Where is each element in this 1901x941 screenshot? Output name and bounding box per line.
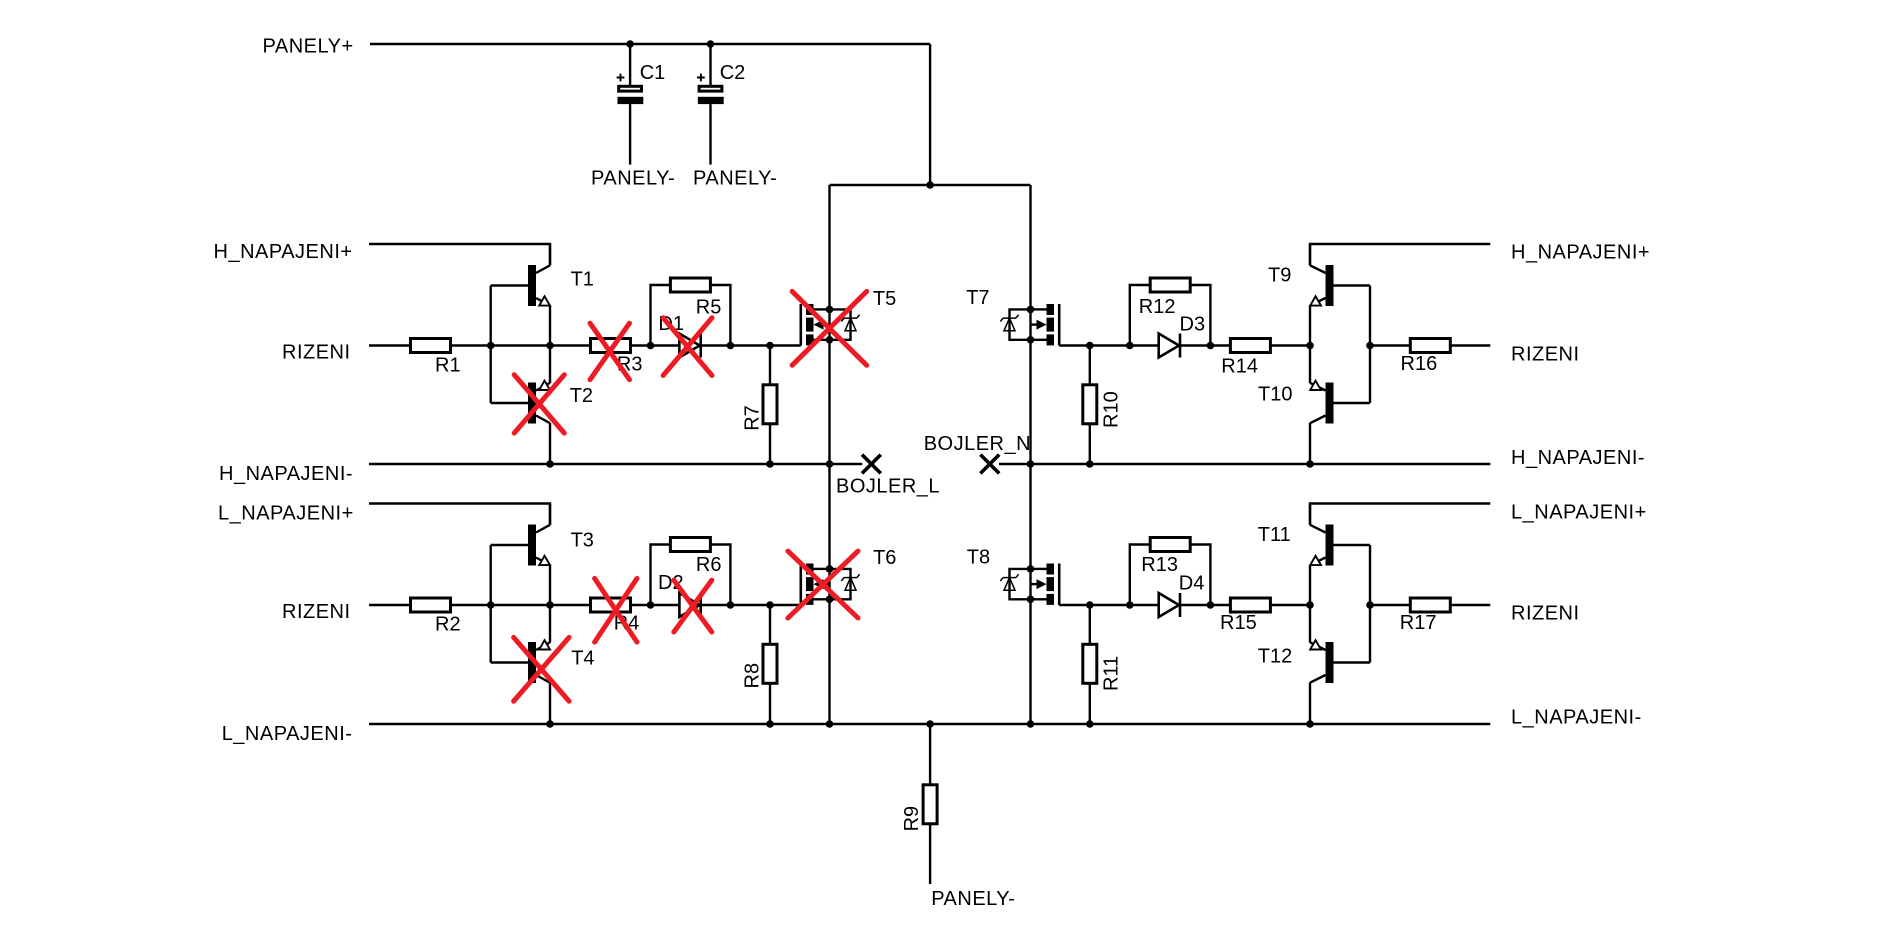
resistor R6 xyxy=(670,538,710,552)
capacitor C1 xyxy=(617,44,644,165)
junction D1 cathode node xyxy=(727,342,735,350)
junction T8 source xyxy=(1027,596,1035,604)
wire base line T11-T12 xyxy=(1369,545,1371,663)
junction R7/gate node xyxy=(766,342,774,350)
label D4 xyxy=(1179,573,1205,595)
wire base line T3-T4 xyxy=(490,545,492,663)
junction H- /T10 xyxy=(1306,460,1314,468)
junction T7 gate/R10 node xyxy=(1086,342,1094,350)
junction bus center xyxy=(926,181,934,189)
svg-text:R12: R12 xyxy=(1139,296,1176,318)
label D2 xyxy=(658,572,684,594)
node H_NAPAJENI- left label xyxy=(219,463,353,485)
wire gate node to D4 xyxy=(1090,604,1130,606)
svg-text:D4: D4 xyxy=(1179,573,1205,595)
resistor R4 xyxy=(591,598,631,612)
svg-text:L_NAPAJENI-: L_NAPAJENI- xyxy=(1511,707,1642,729)
annotation red X over R4 xyxy=(595,578,637,642)
label T6 xyxy=(873,547,896,569)
svg-text:T1: T1 xyxy=(571,268,594,290)
wire T5 column xyxy=(828,185,830,724)
wire R9 bottom lead xyxy=(929,824,931,884)
label R10 xyxy=(1100,391,1122,428)
wire R17 to RIZENI right xyxy=(1451,604,1490,606)
transistor T3 xyxy=(491,504,550,606)
node PANELY- under C2 xyxy=(693,168,777,190)
svg-text:PANELY-: PANELY- xyxy=(931,888,1015,910)
wire D1 node to R7 node xyxy=(730,344,770,346)
resistor R14 xyxy=(1230,339,1270,353)
wire base node to emitter node xyxy=(491,344,550,346)
transistor T7 (MOSFET) xyxy=(1000,304,1091,346)
wire T7 column xyxy=(1029,185,1031,724)
wire D2 node to R8 node xyxy=(730,604,770,606)
wire base line T9-T10 xyxy=(1369,286,1371,404)
junction base node H xyxy=(487,342,495,350)
resistor R16 xyxy=(1410,339,1450,353)
svg-text:T6: T6 xyxy=(873,547,896,569)
wire base node to R16 xyxy=(1370,344,1410,346)
node L_NAPAJENI+ left label xyxy=(218,503,354,525)
label R16 xyxy=(1401,353,1438,375)
transistor T9 xyxy=(1310,244,1370,346)
svg-text:T11: T11 xyxy=(1258,524,1291,546)
capacitor C2 xyxy=(697,44,724,165)
wire R8 top lead xyxy=(769,605,771,644)
junction T9/T10 base node xyxy=(1366,342,1374,350)
svg-text:H_NAPAJENI-: H_NAPAJENI- xyxy=(219,463,353,485)
wire L_NAPAJENI- rail xyxy=(369,723,1490,725)
wire H_NAPAJENI- left xyxy=(369,463,830,465)
transistor T4 xyxy=(491,605,550,724)
annotation red X over T4 xyxy=(514,637,570,701)
svg-text:C2: C2 xyxy=(720,62,746,84)
junction H- /R7 xyxy=(766,460,774,468)
node BOJLER_L label xyxy=(836,475,940,497)
label R8 xyxy=(742,663,764,689)
annotation red X over T5 xyxy=(792,291,867,365)
wire R5 branch xyxy=(651,285,731,346)
node L_NAPAJENI- right label xyxy=(1511,707,1642,729)
wire R7 bottom lead xyxy=(769,424,771,464)
svg-text:T12: T12 xyxy=(1258,645,1292,667)
wire stub BOJLER_N xyxy=(999,463,1031,465)
svg-text:R14: R14 xyxy=(1221,356,1258,378)
junction D3 anode node xyxy=(1126,342,1134,350)
wire R3 to D1 node xyxy=(631,344,651,346)
junction L- /T4 xyxy=(546,720,554,728)
junction H- /R10 xyxy=(1086,460,1094,468)
svg-text:PANELY+: PANELY+ xyxy=(263,36,354,58)
junction D4 anode node xyxy=(1126,601,1134,609)
label T5 xyxy=(873,288,896,310)
junction emitter node L xyxy=(546,601,554,609)
transistor T8 (MOSFET) xyxy=(1000,564,1091,606)
node PANELY- bottom label xyxy=(931,888,1015,910)
wire base node to emitter node L xyxy=(491,604,550,606)
transistor T2 xyxy=(491,346,550,465)
junction T5 drain xyxy=(826,306,834,314)
svg-text:RIZENI: RIZENI xyxy=(282,601,351,623)
label R9 xyxy=(901,806,923,832)
transistor T12 xyxy=(1310,605,1370,724)
annotation red X over T6 xyxy=(788,551,858,618)
diode D1 xyxy=(651,334,731,358)
node BOJLER_L X marker xyxy=(862,455,881,474)
junction D4 cathode node xyxy=(1207,601,1215,609)
wire H_NAPAJENI- right xyxy=(1031,463,1491,465)
wire R11 top lead xyxy=(1089,605,1091,644)
wire base line T1-T2 xyxy=(490,286,492,404)
annotation red X over T2 xyxy=(514,375,564,433)
node L_NAPAJENI- left label xyxy=(222,723,353,745)
label R15 xyxy=(1220,612,1257,634)
junction H- /T2 xyxy=(546,460,554,468)
diode D3 xyxy=(1130,334,1210,358)
svg-text:T8: T8 xyxy=(967,547,990,569)
resistor R8 xyxy=(763,644,777,683)
wire R2 to base node xyxy=(451,604,491,606)
wire base node to R17 xyxy=(1370,604,1410,606)
label R7 xyxy=(742,405,764,431)
wire R7 top lead xyxy=(769,346,771,385)
junction D2 anode node xyxy=(647,601,655,609)
label T2 xyxy=(570,385,593,407)
label T7 xyxy=(966,287,989,309)
junction T7 drain xyxy=(1027,306,1035,314)
wire D4 to R15 xyxy=(1210,604,1230,606)
junction T6 source xyxy=(826,596,834,604)
label T4 xyxy=(571,648,594,670)
wire emitter node to R3 xyxy=(550,344,590,346)
svg-text:L_NAPAJENI+: L_NAPAJENI+ xyxy=(218,503,354,525)
node RIZENI L right label xyxy=(1511,603,1580,625)
svg-text:RIZENI: RIZENI xyxy=(282,341,351,363)
annotation red X over R3 xyxy=(590,323,630,380)
node H_NAPAJENI+ left label xyxy=(214,241,353,263)
wire emitter node to R4 xyxy=(550,604,590,606)
junction H- /T5col xyxy=(826,460,834,468)
junction T11/T12 emitter node xyxy=(1306,601,1314,609)
wire stub BOJLER_L xyxy=(830,463,863,465)
junction T8 drain xyxy=(1027,565,1035,573)
transistor T5 (MOSFET) xyxy=(769,304,860,346)
wire R6 branch xyxy=(651,545,731,606)
node L_NAPAJENI+ right label xyxy=(1511,502,1647,524)
wire L_NAPAJENI+ left xyxy=(369,504,550,525)
node H_NAPAJENI- right label xyxy=(1511,447,1645,469)
junction L- /R8 xyxy=(766,720,774,728)
annotation red X over D1 xyxy=(663,318,712,376)
svg-text:PANELY-: PANELY- xyxy=(693,168,777,190)
resistor R10 xyxy=(1083,385,1097,424)
resistor R7 xyxy=(763,385,777,424)
transistor T6 (MOSFET) xyxy=(769,564,860,606)
wire R15 to T11/T12 node xyxy=(1271,604,1310,606)
label R5 xyxy=(696,296,722,318)
svg-text:BOJLER_L: BOJLER_L xyxy=(836,475,940,497)
label R11 xyxy=(1100,656,1122,691)
svg-text:T2: T2 xyxy=(570,385,593,407)
svg-text:T3: T3 xyxy=(571,529,594,551)
wire R14 to T9/T10 node xyxy=(1271,344,1310,346)
wire R10 top lead xyxy=(1089,346,1091,385)
svg-text:BOJLER_N: BOJLER_N xyxy=(924,433,1031,455)
junction D2 cathode node xyxy=(727,601,735,609)
label R6 xyxy=(696,554,722,576)
wire PANELY+ drop to bus xyxy=(929,44,931,185)
svg-text:PANELY-: PANELY- xyxy=(591,168,675,190)
wire L_NAPAJENI+ right xyxy=(1310,504,1490,525)
wire R16 to RIZENI right xyxy=(1451,344,1490,346)
label T9 xyxy=(1268,264,1291,286)
resistor R13 xyxy=(1150,538,1190,552)
svg-text:L_NAPAJENI-: L_NAPAJENI- xyxy=(222,723,353,745)
svg-text:RIZENI: RIZENI xyxy=(1511,603,1580,625)
junction T11/T12 base node xyxy=(1366,601,1374,609)
resistor R11 xyxy=(1083,644,1097,683)
svg-text:R17: R17 xyxy=(1400,612,1437,634)
label D1 xyxy=(658,313,684,335)
svg-text:T10: T10 xyxy=(1258,383,1292,405)
transistor T11 xyxy=(1310,504,1370,606)
wire R9 top lead xyxy=(929,724,931,785)
wire R4 to D2 node xyxy=(631,604,651,606)
node BOJLER_N X marker xyxy=(980,455,999,474)
svg-text:C1: C1 xyxy=(640,62,666,84)
wire RIZENI to R2 xyxy=(369,604,410,606)
svg-text:R6: R6 xyxy=(696,554,722,576)
wire R11 bottom lead xyxy=(1089,684,1091,725)
svg-text:R8: R8 xyxy=(742,663,764,689)
junction R8/gate node xyxy=(766,601,774,609)
resistor R5 xyxy=(670,278,710,292)
svg-text:T4: T4 xyxy=(571,648,594,670)
svg-text:T7: T7 xyxy=(966,287,989,309)
junction T7 source xyxy=(1027,336,1035,344)
wire R10 bottom lead xyxy=(1089,424,1091,464)
resistor R2 xyxy=(411,598,451,612)
wire RIZENI to R1 xyxy=(369,344,410,346)
resistor R15 xyxy=(1230,598,1270,612)
wire top bus xyxy=(830,184,1031,186)
svg-text:R9: R9 xyxy=(901,806,923,832)
diode D2 xyxy=(651,593,731,617)
junction T9/T10 emitter node xyxy=(1306,342,1314,350)
label D3 xyxy=(1180,313,1206,335)
label R13 xyxy=(1141,554,1178,576)
svg-text:H_NAPAJENI+: H_NAPAJENI+ xyxy=(214,241,353,263)
junction T5 source xyxy=(826,336,834,344)
node RIZENI H right label xyxy=(1511,343,1580,365)
transistor T10 xyxy=(1310,346,1370,465)
label R4 xyxy=(614,612,640,634)
wire R13 branch xyxy=(1130,545,1211,606)
wire PANELY+ rail xyxy=(370,43,930,45)
node PANELY- under C1 xyxy=(591,168,675,190)
junction T6 drain xyxy=(826,565,834,573)
junction H- /T7col xyxy=(1027,460,1035,468)
junction D3 cathode node xyxy=(1207,342,1215,350)
svg-text:RIZENI: RIZENI xyxy=(1511,343,1580,365)
label C1 xyxy=(640,62,666,84)
wire H_NAPAJENI+ left xyxy=(369,244,550,265)
svg-text:D3: D3 xyxy=(1180,313,1206,335)
label R1 xyxy=(435,354,461,376)
wire D3 to R14 xyxy=(1210,344,1230,346)
wire R1 to base node xyxy=(451,344,491,346)
junction L- /R11 xyxy=(1086,720,1094,728)
junction L- /T12 xyxy=(1306,720,1314,728)
resistor R9 xyxy=(923,785,937,824)
svg-text:R13: R13 xyxy=(1141,554,1178,576)
svg-text:H_NAPAJENI+: H_NAPAJENI+ xyxy=(1511,242,1650,264)
label R2 xyxy=(435,613,461,635)
junction L- /T8col xyxy=(1027,720,1035,728)
resistor R1 xyxy=(411,339,451,353)
svg-text:R7: R7 xyxy=(742,405,764,431)
junction D1 anode node xyxy=(647,342,655,350)
node PANELY+ label xyxy=(263,36,354,58)
svg-text:R2: R2 xyxy=(435,613,461,635)
svg-text:R16: R16 xyxy=(1401,353,1438,375)
node RIZENI L left label xyxy=(282,601,351,623)
junction PANELY+/C1 xyxy=(626,40,634,48)
junction emitter node H xyxy=(546,342,554,350)
node BOJLER_N label xyxy=(924,433,1031,455)
resistor R12 xyxy=(1150,278,1190,292)
svg-text:R15: R15 xyxy=(1220,612,1257,634)
node RIZENI H left label xyxy=(282,341,351,363)
label C2 xyxy=(720,62,746,84)
resistor R3 xyxy=(591,339,631,353)
svg-text:H_NAPAJENI-: H_NAPAJENI- xyxy=(1511,447,1645,469)
label R17 xyxy=(1400,612,1437,634)
node H_NAPAJENI+ right label xyxy=(1511,242,1650,264)
junction base node L xyxy=(487,601,495,609)
annotation red X over D2 xyxy=(674,580,712,632)
junction L- /T6col xyxy=(826,720,834,728)
label T1 xyxy=(571,268,594,290)
resistor R17 xyxy=(1410,598,1450,612)
junction L- /R9 xyxy=(926,720,934,728)
label R14 xyxy=(1221,356,1258,378)
svg-text:T9: T9 xyxy=(1268,264,1291,286)
svg-text:L_NAPAJENI+: L_NAPAJENI+ xyxy=(1511,502,1647,524)
wire H_NAPAJENI+ right xyxy=(1310,244,1490,265)
label R3 xyxy=(617,353,643,375)
wire gate node to D3 xyxy=(1090,344,1130,346)
label T12 xyxy=(1258,645,1292,667)
label T11 xyxy=(1258,524,1291,546)
svg-text:R5: R5 xyxy=(696,296,722,318)
svg-text:R10: R10 xyxy=(1100,391,1122,428)
svg-text:R11: R11 xyxy=(1100,656,1122,691)
junction PANELY+/C2 xyxy=(707,40,715,48)
label T3 xyxy=(571,529,594,551)
label T10 xyxy=(1258,383,1292,405)
junction T8 gate/R11 node xyxy=(1086,601,1094,609)
label R12 xyxy=(1139,296,1176,318)
svg-text:T5: T5 xyxy=(873,288,896,310)
diode D4 xyxy=(1130,593,1210,617)
wire R12 branch xyxy=(1130,285,1211,346)
wire R8 bottom lead xyxy=(769,684,771,725)
label T8 xyxy=(967,547,990,569)
transistor T1 xyxy=(491,244,550,346)
svg-text:R1: R1 xyxy=(435,354,461,376)
